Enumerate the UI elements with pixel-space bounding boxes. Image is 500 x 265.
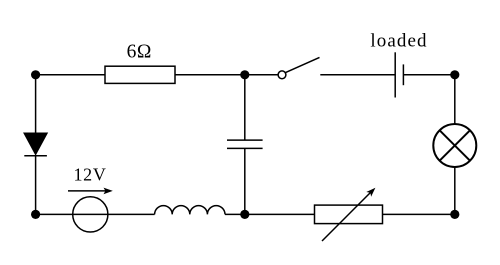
resistor 6Ω (box) [105, 66, 175, 83]
svg-text:6Ω: 6Ω [127, 42, 152, 63]
inductor L1 (4 humps) [155, 206, 225, 215]
capacitor C1 bottom plate [227, 147, 263, 149]
wire middle branch: top node to capacitor [244, 75, 246, 140]
variable resistor R2 (box) [315, 205, 383, 224]
node bottom-left junction dot [31, 210, 40, 219]
12V arrow shaft [68, 190, 107, 192]
wire top rail: middle node to switch [245, 74, 278, 76]
wire right rail: top node to lamp [454, 75, 456, 124]
switch SW1 pivot circle [278, 71, 286, 79]
wire top rail: battery to right node [403, 74, 454, 76]
node top-middle junction dot [240, 70, 249, 79]
12V arrow head [104, 188, 113, 195]
lamp (circle) [433, 124, 476, 167]
wire top rail: resistor to middle node [175, 74, 245, 76]
svg-text:12V: 12V [73, 164, 106, 184]
wire top rail: switch to battery [320, 74, 395, 76]
capacitor C1 top plate [227, 139, 263, 141]
variable resistor arrow shaft [322, 192, 371, 241]
node bottom-middle junction dot [240, 210, 249, 219]
switch SW1 lever [286, 57, 320, 72]
wire top rail: left node to resistor [36, 74, 105, 76]
voltage source V1 12V (circle) [73, 197, 108, 232]
wire left rail: top node to diode [35, 75, 37, 134]
diode D1 triangle (anode, pointing down) [24, 133, 47, 154]
wire bottom rail: inductor to middle node [225, 213, 245, 215]
wire left rail: diode to bottom node [35, 156, 37, 215]
wire right rail: lamp to bottom node [454, 167, 456, 214]
wire middle branch: capacitor to bottom node [244, 148, 246, 214]
lamp cross stroke 1 [440, 130, 470, 160]
wire bottom rail: variable resistor to right node [383, 213, 455, 215]
node bottom-right junction dot [450, 210, 459, 219]
svg-text:loaded: loaded [370, 30, 427, 51]
diode D1 cathode bar [24, 155, 47, 157]
wire bottom rail: left node through source to inductor [36, 213, 155, 215]
variable resistor arrow head [366, 188, 375, 197]
node top-right junction dot [450, 70, 459, 79]
battery short plate [402, 64, 404, 85]
battery long plate [394, 52, 396, 97]
lamp cross stroke 2 [440, 130, 470, 160]
node top-left junction dot [31, 70, 40, 79]
wire bottom rail: middle node to variable resistor [245, 213, 315, 215]
